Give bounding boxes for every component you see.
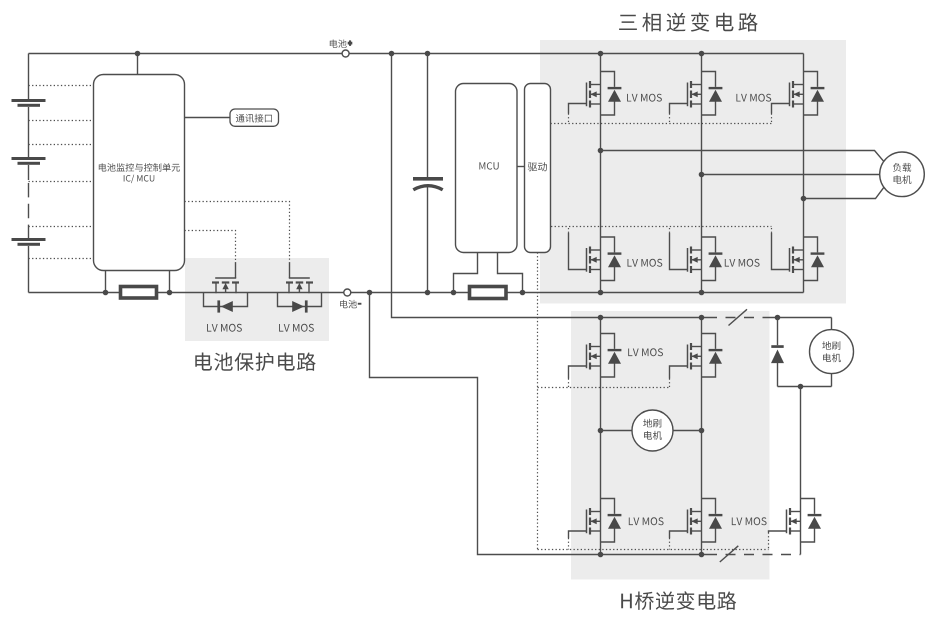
label IC/ MCU [124,175,155,184]
wire gate lead Q5 [772,104,790,114]
dotted gate drop Q11 [568,538,570,550]
brush motor M2 circle [810,330,854,374]
dotted H gate bus top [538,387,671,389]
wire gate lead Q7 [670,233,688,270]
dotted gate line to Q1 [185,231,236,262]
transistor Q6 low side A [587,237,622,281]
label plus sign [348,41,351,45]
node H top leg left [598,315,604,321]
label LV MOS Q1 [207,324,242,332]
title H桥逆变电路 [621,591,736,610]
wire gate lead Q10 [670,366,688,379]
dotted gate rise Q7 [669,227,671,233]
wire to H-bridge bottom rail [370,293,708,555]
label LV MOS Q4 [736,94,771,102]
IC U1 battery monitor box [94,75,185,271]
dotted gate bus top row [551,123,772,125]
node H top leg right [699,315,705,321]
wire H-bridge leg left [600,318,602,555]
battery cell B2 [12,157,46,160]
node IC leg right [167,290,173,296]
transistor Q1 discharge protect [204,262,248,313]
battery protection region background [185,258,329,341]
wire phase B [702,174,880,176]
wire capacitor upper [427,54,429,178]
dotted driver drop line [537,253,539,550]
wire below cell3 to bottom bus [28,246,30,293]
wire H top rail solid [601,317,708,319]
label LV MOS Q6 [628,259,663,267]
capacitor C1 [413,177,443,181]
terminal 电池- [344,289,351,296]
node MCU leg right [520,290,526,296]
wire gate lead Q4 [670,104,688,114]
dotted gate drop Q12 [669,538,671,550]
label 驱动 [528,162,547,171]
wire IC bottom leg left [105,271,107,293]
resistor R2 shunt MCU [470,287,507,299]
wire IC top lead [137,54,139,75]
label 电池- [340,300,357,308]
node H bottom right [699,552,705,558]
wire gate lead Q8 [772,233,790,270]
transistor Q9 H high 1 [587,334,622,378]
label 通讯接口 [236,114,272,123]
label 电机 right [823,353,841,362]
wire gate lead Q11 [569,531,587,538]
label 地刷 right [822,341,840,350]
node H mid right [699,428,705,434]
wire mid motor left lead [601,430,633,432]
H-bridge inverter region background [571,311,770,580]
wire above cell3 [28,227,30,238]
node IC leg left [103,290,109,296]
node junction IC top [135,51,141,57]
wire below cell2 [28,165,30,180]
dotted gate drop Q3 [568,114,570,124]
wire gate lead Q3 [569,104,587,114]
resistor R1 shunt battery [121,287,157,299]
wire brush return drop [800,387,802,500]
switch slash bottom [720,546,739,562]
wire mid motor right lead [673,430,702,432]
node capacitor bottom [425,290,431,296]
wire inverter leg B [701,54,703,293]
wire phase A [601,151,884,162]
transistor Q11 H low 1 [587,499,622,543]
brush motor M3 circle [632,410,673,451]
dotted battery sense line y=181.5 [29,181,94,183]
dotted gate drop Q13 [768,533,770,550]
transistor Q10 H high 2 [688,334,723,378]
node bottom rail leg B [699,290,705,296]
dotted battery sense line y=120.5 [29,120,94,122]
label 电池+ [330,40,347,48]
three-phase inverter region background [540,40,846,304]
node top H-feed [389,51,395,57]
label LV MOS Q7 [725,259,760,267]
wire right mosfet leg [800,499,802,555]
load motor M1 circle [880,152,925,197]
battery cell B1 [12,99,46,102]
wire node line [778,386,832,388]
wire bottom rail right segment [351,292,804,294]
transistor Q13 H low 3 [787,499,822,543]
transistor Q5 high side C [790,72,825,116]
wire battery stack vertical top [28,54,30,100]
label 地刷 mid [643,419,661,428]
node H mid left [598,428,604,434]
wire gate lead Q12 [670,531,688,538]
transistor Q4 high side B [688,72,723,116]
wire between cell1 and cell2 [28,107,30,157]
label MCU [479,162,498,169]
dotted battery sense line y=226.5 [29,226,94,228]
node MCU leg left [451,290,457,296]
wire MCU ground staple right [498,253,523,293]
transistor Q12 H low 2 [688,499,723,543]
node freewheel diode tap [775,315,781,321]
wire brush motor top lead [831,318,833,330]
dotted gate drop Q9 [568,379,570,388]
dotted gate line to Q2 [185,202,290,260]
node bottom H-feed [367,290,373,296]
wire inverter leg A [600,54,602,293]
wire gate lead Q9 [569,366,587,379]
wire inverter leg C [803,54,805,293]
wire top rail left segment [29,53,343,55]
diode D1 [771,345,784,363]
dotted gate drop Q10 [669,379,671,388]
dotted battery sense line y=258.5 [29,258,94,260]
wire H top rail right [769,317,832,319]
wire gate lead Q13 [769,531,787,533]
wire MCU ground staple left [454,253,478,293]
transistor Q7 low side B [688,237,723,281]
wire diode D1 lower [777,363,779,387]
dotted gate drop Q4 [669,114,671,124]
label 电机 load [894,175,912,184]
wire diode D1 upper [777,318,779,346]
driver box 驱动 [525,84,551,253]
wire gate lead Q6 [569,233,587,270]
wire IC bottom leg right [169,271,171,293]
MCU box [456,84,518,253]
wire H-bridge leg right [701,318,703,555]
dotted gate rise Q8 [771,227,773,233]
battery cell B3 [12,238,46,241]
label LV MOS Q11 [629,517,664,525]
title 三相逆变电路 [619,13,758,32]
wire to H-bridge top rail [392,54,601,318]
label LV MOS Q3 [627,94,662,102]
label 电池监控与控制单元 [99,163,180,171]
dotted gate drop Q5 [771,114,773,124]
node phase B tap [699,172,705,178]
dotted battery sense line y=85.5 [29,85,94,87]
switch slash top [729,309,748,325]
wire capacitor lower [427,187,429,293]
wire H bottom rail dashed [707,554,801,556]
label minus sign [358,303,362,305]
wire dashed more-cells [28,180,30,227]
label 负载 [893,163,911,172]
title 电池保护电路 [195,353,315,371]
node H bottom left [598,552,604,558]
wire brush motor bottom lead [831,374,833,387]
box 通讯接口 [230,109,279,126]
node top rail leg A [598,51,604,57]
dotted gate bus bottom row [551,226,772,228]
label LV MOS Q12 [732,517,767,525]
label 电机 mid [644,431,662,440]
wire bottom rail left segment [29,292,344,294]
terminal 电池+ [342,50,349,57]
node top rail leg B [699,51,705,57]
node phase A tap [598,148,604,154]
wire to comm box [185,117,231,119]
transistor Q8 low side C [790,237,825,281]
wire MCU-driver link [517,166,525,168]
dotted gate rise Q6 [568,227,570,233]
label LV MOS Q9 [628,348,663,356]
dotted battery sense line y=144.5 [29,144,94,146]
node bottom rail leg A [598,290,604,296]
dotted H gate bus bottom [538,549,769,551]
node phase C tap [801,196,807,202]
transistor Q3 high side A [587,72,622,116]
node brush return [798,384,804,390]
wire top rail right segment [349,53,803,55]
wire H top rail dashed [707,317,769,319]
transistor Q2 charge protect [278,262,322,313]
wire phase C [804,187,884,198]
label LV MOS Q2 [279,324,314,332]
node capacitor top [425,51,431,57]
